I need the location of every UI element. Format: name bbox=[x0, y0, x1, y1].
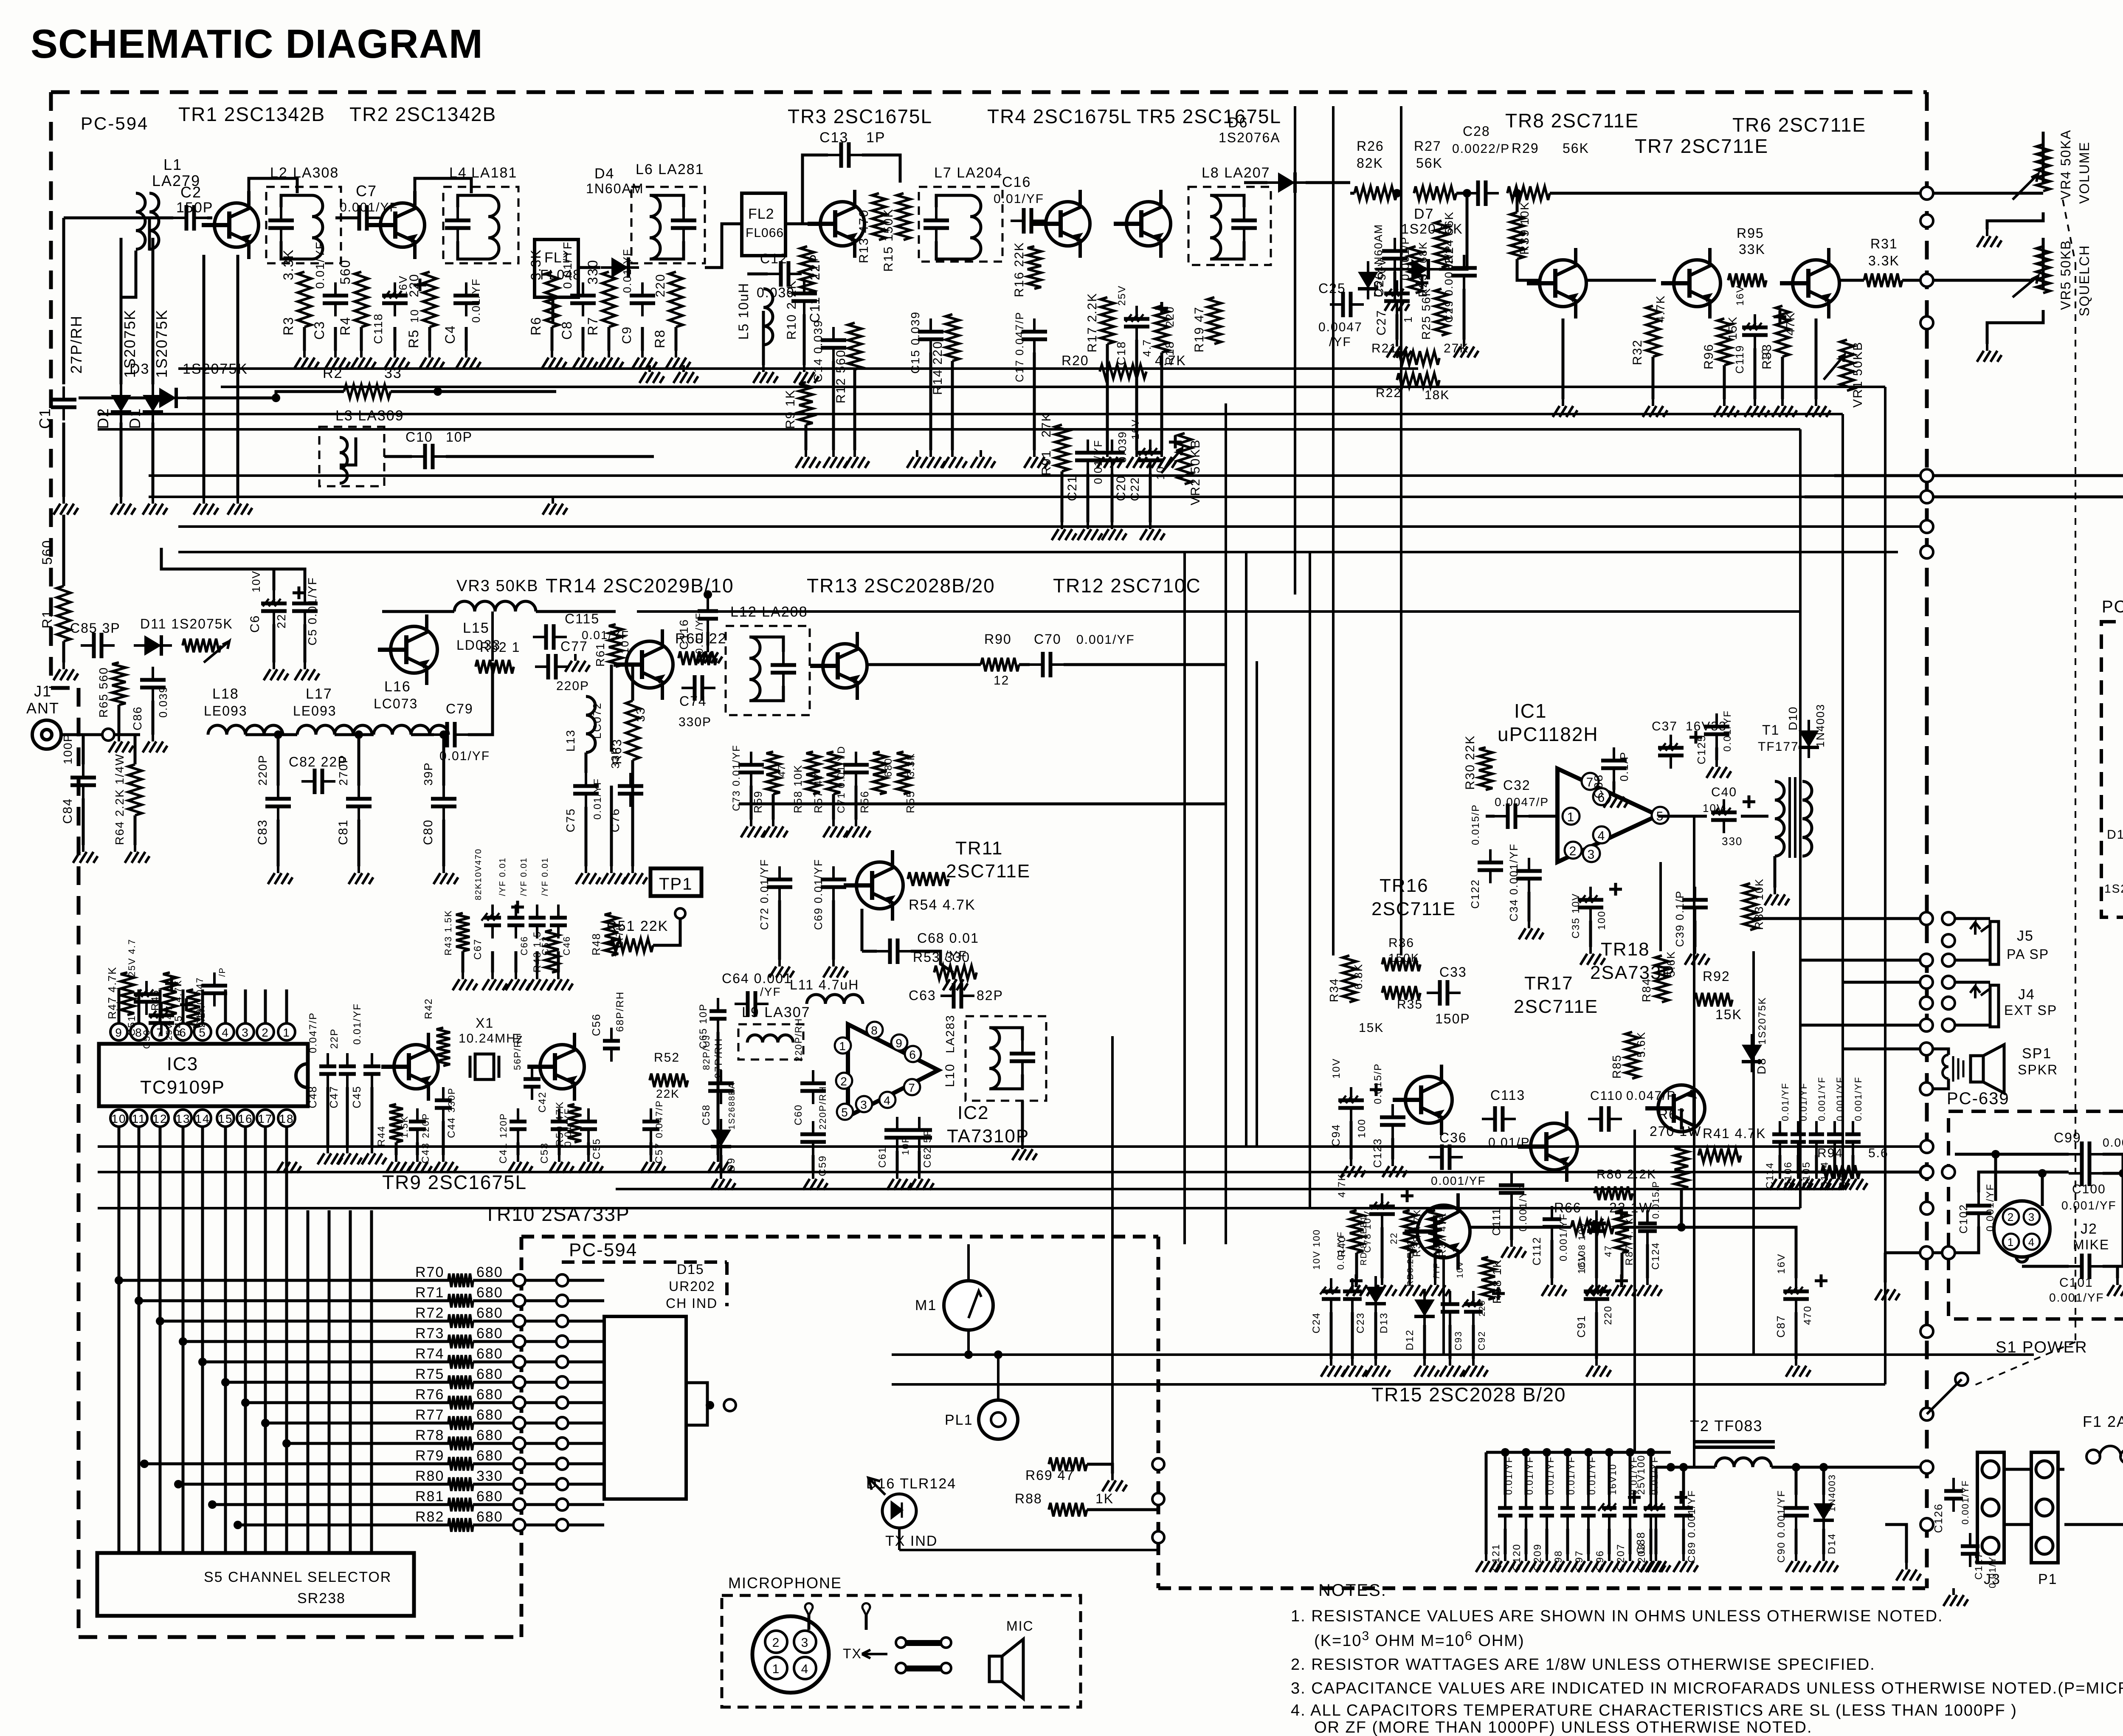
IC3 pin 18 bbox=[278, 1110, 295, 1127]
svg-text:0.047/P: 0.047/P bbox=[307, 1012, 319, 1053]
svg-text:EXT SP: EXT SP bbox=[2004, 1003, 2057, 1018]
wire TR15 to R66 bbox=[1470, 1226, 1571, 1229]
capacitor C17 0.047/P bbox=[1033, 318, 1036, 352]
svg-text:R29: R29 bbox=[1512, 141, 1539, 156]
diode D8 1S2075K bbox=[1742, 1034, 1762, 1072]
svg-text:R69 47: R69 47 bbox=[1025, 1468, 1074, 1483]
wire fan to R82 bbox=[238, 1524, 459, 1527]
svg-text:R48: R48 bbox=[590, 933, 603, 955]
resistor R2 33 bbox=[344, 385, 391, 398]
diode D7 1S2075K bbox=[1401, 259, 1439, 279]
resistor R9 1K bbox=[799, 382, 813, 425]
svg-text:C92: C92 bbox=[1476, 1331, 1487, 1350]
wire bus top band c bbox=[98, 413, 1843, 415]
wire to J5 rail bbox=[1754, 917, 1920, 920]
ground C53 bbox=[549, 1155, 574, 1173]
svg-text:C61: C61 bbox=[877, 1147, 888, 1168]
capacitor C82 22P bbox=[301, 780, 335, 783]
svg-text:C56: C56 bbox=[590, 1013, 603, 1036]
connector J1 ANT bbox=[32, 720, 61, 749]
svg-text:TR12 2SC710C: TR12 2SC710C bbox=[1053, 575, 1201, 597]
capacitor C112 0.001/YF bbox=[1551, 1206, 1553, 1240]
capacitor C34 0.001/YF bbox=[1528, 858, 1530, 892]
resistor R24 56K bbox=[1435, 221, 1448, 268]
capacitor C207 0.01/YF bbox=[1629, 1495, 1631, 1529]
svg-text:C12: C12 bbox=[760, 251, 788, 266]
svg-text:MIC: MIC bbox=[1006, 1618, 1034, 1634]
svg-text:16V: 16V bbox=[1576, 1253, 1588, 1274]
vertical bus l bbox=[1294, 106, 1296, 595]
svg-text:R19 47: R19 47 bbox=[1192, 306, 1206, 352]
svg-text:0.01/YF: 0.01/YF bbox=[313, 241, 327, 289]
capacitor C71 0.01/YD bbox=[855, 752, 857, 786]
svg-text:R31: R31 bbox=[1870, 236, 1898, 251]
svg-text:5.6K: 5.6K bbox=[1635, 1031, 1647, 1058]
svg-text:C80: C80 bbox=[421, 819, 435, 845]
svg-text:16: 16 bbox=[238, 1112, 253, 1125]
ground C38 bbox=[1604, 790, 1628, 808]
wire IC3 pin 5 up bbox=[201, 989, 204, 1023]
svg-text:0.001/YF: 0.001/YF bbox=[2061, 1199, 2117, 1212]
capacitor C39 0.1/P bbox=[1694, 887, 1696, 921]
junction ladder a R75 bbox=[513, 1376, 525, 1388]
svg-text:220: 220 bbox=[1163, 306, 1176, 327]
junction ladder b R75 bbox=[556, 1376, 568, 1388]
capacitor C50 25V 4.7 bbox=[160, 1002, 163, 1036]
svg-text:0.01/YF: 0.01/YF bbox=[1722, 710, 1733, 752]
svg-text:C46: C46 bbox=[561, 936, 572, 955]
svg-text:0.01/YF: 0.01/YF bbox=[1780, 1082, 1791, 1121]
svg-text:82P: 82P bbox=[977, 988, 1003, 1003]
svg-text:4.7K: 4.7K bbox=[1654, 295, 1667, 323]
svg-text:1: 1 bbox=[2008, 1236, 2014, 1248]
capacitor C15 0.039 bbox=[929, 318, 932, 352]
junction ladder a R79 bbox=[513, 1458, 525, 1470]
wire C70 out bbox=[1064, 663, 1227, 666]
ground right bias bbox=[1714, 399, 1739, 417]
wire fan to R73 bbox=[183, 1340, 459, 1343]
capacitor C4 bbox=[465, 282, 467, 316]
ground power filter bbox=[1786, 1554, 1810, 1572]
resistor R37 47K bbox=[1428, 1210, 1442, 1253]
svg-text:R8: R8 bbox=[652, 329, 667, 348]
wire IC1 down bbox=[1659, 862, 1662, 951]
resistor R59 47 bbox=[766, 752, 780, 794]
wire C99 rail bbox=[1955, 1153, 2069, 1156]
svg-text:J1: J1 bbox=[34, 682, 52, 700]
ground TR15 right bbox=[1463, 1359, 1488, 1377]
wire IC3 pin 4 up bbox=[224, 989, 227, 1023]
svg-text:C125: C125 bbox=[1695, 735, 1708, 764]
ground C29 bbox=[1454, 340, 1478, 358]
svg-text:10K: 10K bbox=[1518, 201, 1531, 225]
ground D1 bbox=[143, 497, 167, 515]
svg-text:2SC711E: 2SC711E bbox=[1371, 899, 1456, 919]
ground R17 bbox=[1097, 450, 1122, 468]
capacitor C105 0.001/YF bbox=[1815, 1121, 1818, 1155]
inductor L3 bbox=[340, 437, 347, 483]
capacitor C86 0.039 bbox=[152, 667, 154, 701]
inductor box L12 LA208 bbox=[726, 626, 810, 715]
svg-text:R42: R42 bbox=[423, 998, 434, 1019]
resistor R29 56K bbox=[1507, 186, 1550, 200]
svg-text:R12 560: R12 560 bbox=[834, 349, 848, 403]
switch S5 CHANNEL SELECTOR SR238 bbox=[97, 1553, 414, 1616]
vertical bus a bbox=[1183, 552, 1186, 1244]
svg-text:R20: R20 bbox=[1061, 353, 1089, 368]
svg-text:100: 100 bbox=[1356, 1119, 1368, 1138]
inductor box L3 LA309 bbox=[319, 427, 384, 486]
svg-text:D16 TLR124: D16 TLR124 bbox=[866, 1476, 956, 1492]
wire C12 left bbox=[747, 273, 768, 276]
svg-text:100: 100 bbox=[1596, 910, 1608, 930]
svg-text:1. RESISTANCE VALUES ARE SH: 1. RESISTANCE VALUES ARE SHOWN IN OHMS U… bbox=[1291, 1607, 1943, 1625]
IC2 pin 5 bbox=[837, 1104, 853, 1120]
ground power filter bbox=[1673, 1554, 1698, 1572]
resistor R45 2.2K bbox=[186, 989, 200, 1028]
capacitor C27 50V 1 bbox=[1396, 280, 1398, 314]
resistor R7 bbox=[602, 272, 616, 327]
wire into J2 pin3 bbox=[2041, 1173, 2044, 1206]
svg-text:C66: C66 bbox=[519, 936, 529, 955]
svg-text:PC-594: PC-594 bbox=[81, 113, 149, 133]
wire IC3 pin 17 down bbox=[264, 1127, 267, 1147]
capacitor C37 16V33 bbox=[1670, 735, 1672, 769]
resistor R17 2.2K bbox=[1101, 297, 1114, 344]
inductor box L9 LA307 bbox=[738, 1024, 803, 1060]
wire channel bus 3 bbox=[159, 1147, 162, 1553]
svg-text:F1 2A: F1 2A bbox=[2083, 1413, 2123, 1430]
svg-text:15K: 15K bbox=[1715, 1007, 1742, 1022]
capacitor C68 0.01/YF bbox=[877, 950, 911, 953]
svg-text:MICROPHONE: MICROPHONE bbox=[728, 1574, 842, 1592]
junction border b bbox=[1920, 1166, 1933, 1178]
resistor R43b 1.5K bbox=[456, 913, 470, 951]
potentiometer VR2 50KB bbox=[1178, 433, 1191, 484]
capacitor C118 bbox=[394, 282, 396, 316]
mic connector plug bbox=[752, 1616, 829, 1693]
capacitor C92 10V 220 bbox=[1472, 1291, 1475, 1325]
ground C208 bbox=[1641, 1554, 1665, 1572]
svg-text:LA308: LA308 bbox=[293, 165, 339, 181]
diode D13 RD8.2EB1 bbox=[1366, 1276, 1386, 1314]
resistor R4 bbox=[355, 272, 368, 327]
svg-text:0.01/YF: 0.01/YF bbox=[592, 778, 603, 820]
wire C102 top bbox=[1979, 1172, 2069, 1192]
resistor R83 10K bbox=[1743, 883, 1757, 930]
capacitor C59 220P/RH bbox=[812, 1121, 814, 1155]
ground C87 bbox=[1786, 1359, 1810, 1377]
svg-text:D10: D10 bbox=[1786, 706, 1799, 730]
capacitor C94 10V 100 bbox=[1350, 1087, 1352, 1121]
resistor R48 2.7K bbox=[605, 913, 618, 955]
svg-text:R44: R44 bbox=[376, 1125, 387, 1147]
IC2 pin 1 bbox=[835, 1037, 851, 1054]
svg-text:R53 330: R53 330 bbox=[913, 950, 970, 965]
svg-text:C68 0.01: C68 0.01 bbox=[917, 930, 979, 946]
jack J4 EXT SP bbox=[1990, 985, 1999, 1027]
test point TP1 bbox=[650, 868, 701, 896]
resistor R96 15K bbox=[1718, 318, 1731, 365]
capacitor in L10 bbox=[1021, 1040, 1024, 1074]
svg-text:220: 220 bbox=[407, 273, 421, 297]
svg-text:R86 2.2K: R86 2.2K bbox=[1596, 1167, 1656, 1181]
svg-text:D15: D15 bbox=[677, 1262, 704, 1277]
ground L1b bbox=[228, 497, 252, 515]
svg-text:13: 13 bbox=[175, 1112, 190, 1125]
wire L8 to D6 bbox=[1244, 181, 1267, 184]
svg-text:15K: 15K bbox=[1359, 1021, 1384, 1035]
svg-text:C2: C2 bbox=[180, 183, 202, 201]
indicator D15 UR202 CH IND bbox=[604, 1316, 686, 1499]
wire channel bus 2 bbox=[138, 1147, 141, 1553]
ground L1a bbox=[194, 497, 218, 515]
svg-text:L11 4.7uH: L11 4.7uH bbox=[790, 977, 859, 992]
svg-text:T2 TF083: T2 TF083 bbox=[1690, 1417, 1763, 1434]
svg-text:C13: C13 bbox=[819, 130, 848, 146]
board border mic-area vertical bbox=[1157, 1237, 1160, 1588]
inductor L7 winding bbox=[970, 195, 981, 259]
svg-text:C123: C123 bbox=[1371, 1138, 1384, 1168]
capacitor C11 22P bbox=[803, 280, 805, 314]
svg-text:R58 10K: R58 10K bbox=[791, 764, 804, 813]
svg-text:IC1: IC1 bbox=[1514, 700, 1547, 722]
svg-text:L4: L4 bbox=[449, 165, 467, 181]
capacitor in L6 bbox=[682, 207, 685, 241]
svg-text:680: 680 bbox=[476, 1305, 503, 1321]
svg-text:R32: R32 bbox=[1630, 339, 1644, 365]
svg-text:0.01/YF: 0.01/YF bbox=[439, 749, 490, 763]
svg-text:C102: C102 bbox=[1957, 1204, 1970, 1234]
capacitor C8 bbox=[582, 282, 584, 316]
wire fan to R70 bbox=[119, 1279, 459, 1282]
wire TX supply rail bbox=[637, 610, 1800, 613]
resistor R92 15K bbox=[1694, 993, 1732, 1006]
wire bus h bbox=[178, 551, 1898, 553]
IC3 pin 5 bbox=[194, 1023, 211, 1040]
svg-text:R33: R33 bbox=[1760, 344, 1774, 369]
svg-text:10K: 10K bbox=[1753, 878, 1765, 900]
svg-text:3. CAPACITANCE VALUES ARE I: 3. CAPACITANCE VALUES ARE INDICATED IN M… bbox=[1291, 1680, 2123, 1697]
resistor R50 47K bbox=[568, 1104, 581, 1142]
wire channel bus 4 bbox=[182, 1147, 185, 1553]
transistor TR4 bbox=[1033, 190, 1090, 258]
svg-text:0.001/YF: 0.001/YF bbox=[1816, 1077, 1827, 1121]
svg-text:C82 22P: C82 22P bbox=[289, 754, 348, 769]
svg-text:TC9109P: TC9109P bbox=[140, 1077, 225, 1098]
capacitor C26 0.001/P bbox=[1394, 238, 1396, 272]
wire C79 up to TR14 bbox=[468, 662, 493, 735]
svg-text:D4: D4 bbox=[594, 166, 614, 182]
wire mike gnd bbox=[1884, 1253, 1887, 1282]
svg-text:10V: 10V bbox=[250, 570, 262, 592]
diode D12 RD8.2EB1 bbox=[1414, 1289, 1435, 1327]
inductor L15 LD033 bbox=[454, 601, 536, 612]
svg-text:C110: C110 bbox=[1590, 1089, 1623, 1103]
ground TR15 right bbox=[1440, 1359, 1464, 1377]
wire IC3 pin 15 down bbox=[224, 1127, 227, 1147]
wire R94 rail left bbox=[1796, 1171, 1920, 1174]
svg-text:0.0047/P: 0.0047/P bbox=[1495, 795, 1549, 809]
ground C27 bbox=[1387, 340, 1411, 358]
svg-text:C48: C48 bbox=[306, 1085, 319, 1108]
svg-text:TR16: TR16 bbox=[1380, 875, 1429, 896]
svg-text:L5 10uH: L5 10uH bbox=[736, 282, 751, 340]
ground power filter bbox=[1813, 1554, 1838, 1572]
inductor L8 winding bbox=[1210, 195, 1221, 259]
capacitor C88 25V100 bbox=[1655, 1495, 1657, 1529]
svg-text:R25 56K: R25 56K bbox=[1419, 287, 1433, 340]
resistor R22 18K bbox=[1397, 373, 1439, 387]
svg-text:VR3 50KB: VR3 50KB bbox=[456, 577, 538, 595]
ground L10 bbox=[1012, 1142, 1037, 1160]
svg-text:0.039: 0.039 bbox=[1116, 431, 1129, 463]
board border bottom right edge bbox=[1158, 1587, 1927, 1590]
wire L1 gnd b bbox=[237, 255, 239, 497]
resistor R91 27K bbox=[1055, 425, 1069, 471]
ground input filter bbox=[434, 866, 458, 884]
svg-text:220: 220 bbox=[653, 273, 667, 297]
svg-text:R1: R1 bbox=[39, 609, 55, 628]
wire to J4 rail bbox=[1843, 981, 1920, 984]
svg-text:0.01/YF: 0.01/YF bbox=[352, 1003, 363, 1045]
svg-text:R52: R52 bbox=[654, 1051, 680, 1065]
diode D2 bbox=[111, 384, 131, 423]
ground C207 bbox=[1620, 1554, 1644, 1572]
svg-text:4.7K: 4.7K bbox=[173, 980, 183, 1002]
svg-text:2: 2 bbox=[1569, 844, 1577, 858]
svg-text:R94: R94 bbox=[1817, 1146, 1843, 1160]
ground C68 bbox=[943, 972, 968, 990]
svg-text:C101: C101 bbox=[2059, 1276, 2093, 1290]
wire fan to R80 bbox=[178, 1483, 459, 1486]
svg-text:C119: C119 bbox=[1733, 345, 1746, 374]
svg-text:TR15 2SC2028 B/20: TR15 2SC2028 B/20 bbox=[1371, 1384, 1566, 1406]
svg-text:C93: C93 bbox=[1453, 1331, 1464, 1350]
capacitor C116 0.01/YF bbox=[707, 598, 709, 632]
svg-text:560: 560 bbox=[338, 259, 353, 285]
ground C104 bbox=[1825, 1172, 1849, 1190]
svg-text:C81: C81 bbox=[336, 819, 350, 845]
ground C76 bbox=[601, 866, 626, 884]
ground right bias bbox=[1745, 399, 1769, 417]
inductor box L2 LA308 bbox=[266, 187, 341, 263]
capacitor C83 220P bbox=[277, 786, 279, 820]
capacitor C73 0.01/YF bbox=[750, 752, 752, 786]
resistor R53 330 bbox=[934, 966, 977, 979]
junction ladder b R73 bbox=[556, 1336, 568, 1347]
svg-text:1K: 1K bbox=[1095, 1491, 1114, 1506]
ground R5 bbox=[420, 351, 444, 369]
svg-text:D12: D12 bbox=[1404, 1329, 1416, 1350]
capacitor C41 120P bbox=[517, 1108, 519, 1142]
resistor R21 27K bbox=[1397, 351, 1439, 365]
ground cap cluster bbox=[527, 972, 552, 990]
svg-text:3.3K: 3.3K bbox=[528, 249, 543, 280]
wire fan to R75 bbox=[225, 1381, 459, 1384]
wire C99 C100 join bbox=[2103, 1154, 2123, 1173]
IC3 pin 6 bbox=[175, 1023, 191, 1040]
svg-text:R41 4.7K: R41 4.7K bbox=[1703, 1126, 1766, 1141]
wire meter feed bbox=[967, 1244, 970, 1281]
wire into T2 bbox=[1656, 1466, 1715, 1469]
wire gnd to border bbox=[1885, 1251, 1943, 1254]
ground cap cluster bbox=[506, 972, 530, 990]
svg-text:R65 560: R65 560 bbox=[97, 667, 110, 718]
capacitor C84 100P bbox=[82, 764, 84, 798]
svg-text:3: 3 bbox=[860, 1098, 868, 1111]
transistor TR1 bbox=[202, 191, 259, 259]
capacitor C23 0.01/YF bbox=[1351, 1278, 1354, 1312]
svg-text:L15: L15 bbox=[463, 620, 490, 636]
junction ladder b R72 bbox=[556, 1315, 568, 1327]
wire D2 top bbox=[120, 238, 123, 384]
svg-text:TR18: TR18 bbox=[1601, 939, 1650, 960]
wire to L1 bbox=[64, 217, 98, 220]
svg-text:R77: R77 bbox=[415, 1407, 444, 1423]
ground TR16 bias bbox=[1399, 1278, 1424, 1296]
ground R14 bbox=[942, 450, 967, 468]
svg-text:MIKE: MIKE bbox=[2073, 1237, 2109, 1252]
crystal X1 10.24MHz bbox=[470, 1056, 499, 1078]
svg-text:1N4003: 1N4003 bbox=[1827, 1474, 1837, 1512]
svg-text:680: 680 bbox=[476, 1448, 503, 1464]
wire bus f bbox=[149, 496, 1805, 498]
svg-text:3: 3 bbox=[2028, 1211, 2035, 1223]
wire L1 to C2 bbox=[149, 218, 173, 251]
junction ladder a R70 bbox=[513, 1274, 525, 1286]
svg-text:R91: R91 bbox=[1039, 450, 1053, 476]
svg-text:C207: C207 bbox=[1615, 1544, 1627, 1571]
svg-text:56K: 56K bbox=[1416, 155, 1443, 171]
svg-text:1S2075K: 1S2075K bbox=[1401, 221, 1463, 237]
wire TR1 collector to L2 bbox=[249, 178, 297, 193]
svg-text:C70: C70 bbox=[1034, 631, 1061, 647]
capacitor C42 56P/RH bbox=[531, 1066, 533, 1100]
ground right bias bbox=[1772, 399, 1797, 417]
capacitor C101 0.001/YF bbox=[2069, 1265, 2103, 1268]
ground C98 bbox=[1557, 1554, 1582, 1572]
wire L2 out bbox=[335, 217, 358, 220]
resistor R35 15K bbox=[1382, 986, 1420, 1000]
svg-text:R84: R84 bbox=[1640, 978, 1653, 1002]
ground C116 bbox=[698, 645, 722, 663]
ground power bbox=[1896, 1563, 1921, 1581]
resistor R84 5.6K bbox=[1655, 955, 1669, 1002]
ground C1 bbox=[53, 497, 78, 515]
capacitor C45 0.01/YF bbox=[371, 1053, 373, 1087]
ground C9 bbox=[632, 351, 657, 369]
resistor R39 10K bbox=[1510, 212, 1524, 259]
junction ladder b R79 bbox=[556, 1458, 568, 1470]
svg-text:LE093: LE093 bbox=[293, 703, 337, 719]
svg-text:L6 LA281: L6 LA281 bbox=[636, 161, 704, 178]
wire IC3 pin 11 down bbox=[138, 1127, 141, 1147]
capacitor C29 0.0022/P bbox=[1463, 255, 1465, 289]
board PC-639 box bbox=[1948, 1111, 2123, 1319]
board border left lower edge bbox=[77, 688, 81, 1637]
svg-text:16V: 16V bbox=[1776, 1253, 1787, 1274]
resistor R54 4.7K bbox=[908, 872, 949, 886]
resistor R69 47 bbox=[1049, 1457, 1087, 1471]
inductor L10 bbox=[989, 1028, 1000, 1089]
board border channel-area top bbox=[521, 1235, 1158, 1239]
IC2 pin 6 bbox=[905, 1046, 921, 1062]
svg-text:C28: C28 bbox=[1463, 124, 1490, 139]
svg-text:150P: 150P bbox=[176, 200, 213, 216]
IC1 pin 3 bbox=[1583, 845, 1600, 862]
svg-text:680: 680 bbox=[476, 1285, 503, 1301]
